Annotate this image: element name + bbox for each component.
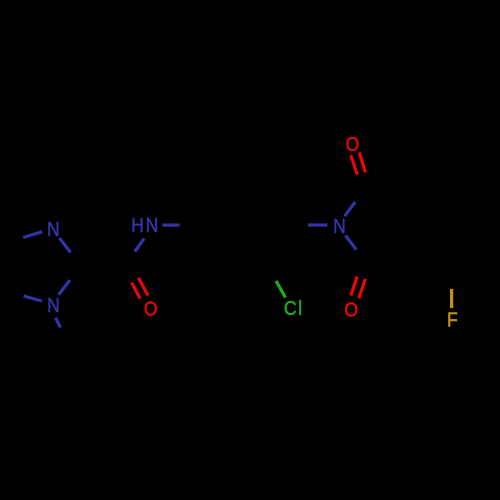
chlorine half bond bbox=[276, 281, 285, 298]
imidazole: N3-C2 half bond bbox=[59, 280, 70, 295]
phthalimide: bottom C=O double bond line 1 bbox=[351, 277, 357, 296]
imidazole: N3-methyl half bond bbox=[56, 318, 61, 328]
svg-text:N: N bbox=[47, 218, 61, 240]
svg-text:N: N bbox=[333, 215, 347, 237]
phthalimide: bottom C=O double bond line 2 bbox=[359, 279, 366, 298]
amide: HN-phenyl half bond bbox=[163, 224, 180, 227]
phthalimide: top C=O double bond line 1 bbox=[351, 155, 358, 175]
svg-text:N: N bbox=[47, 294, 61, 316]
svg-text:O: O bbox=[144, 297, 159, 319]
imidazole: N1-C2 half bond bbox=[59, 238, 70, 253]
fluorine half bond bbox=[450, 289, 453, 308]
imidazole: N3-C4 half bond bbox=[24, 296, 42, 301]
amide: C=O double bond line 1 bbox=[132, 283, 141, 299]
svg-text:O: O bbox=[344, 298, 359, 320]
svg-text:O: O bbox=[346, 133, 361, 155]
amide: HN-C(=O) half bond bbox=[135, 239, 144, 252]
phthalimide: N-phenyl half bond bbox=[308, 223, 328, 226]
phthalimide: N-C(=O)top half bond bbox=[345, 202, 356, 216]
svg-text:Cl: Cl bbox=[284, 297, 304, 319]
imidazole: N1-C5 half bond bbox=[23, 232, 42, 238]
phthalimide: top C=O double bond line 2 bbox=[359, 152, 365, 172]
svg-text:HN: HN bbox=[131, 214, 160, 236]
svg-text:F: F bbox=[447, 309, 460, 331]
amide: C=O double bond line 2 bbox=[139, 278, 149, 296]
phthalimide: N-C(=O)bottom half bond bbox=[345, 235, 356, 249]
